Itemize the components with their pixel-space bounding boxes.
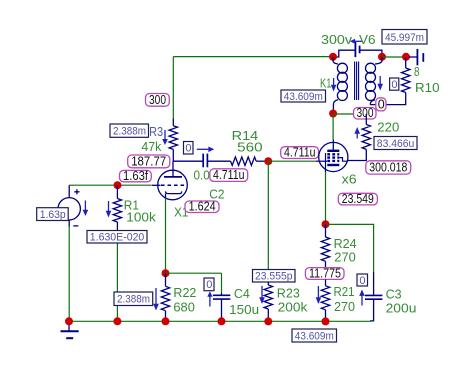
wire grid drop to R23 <box>267 161 269 269</box>
node junction primary bottom <box>329 110 337 118</box>
svg-text:0: 0 <box>378 97 385 111</box>
resistor R22 <box>161 273 169 321</box>
capacitor C3 <box>365 272 382 321</box>
wire X6 cathode drop <box>325 172 327 224</box>
current box 23.555p (R23) <box>253 270 296 283</box>
svg-text:1.624: 1.624 <box>189 200 216 214</box>
label K1 <box>320 76 332 91</box>
svg-text:0: 0 <box>359 275 365 287</box>
current arrow 220 up <box>354 127 360 139</box>
svg-text:270: 270 <box>334 249 356 264</box>
svg-text:11.775: 11.775 <box>309 266 341 280</box>
resistor 220 screen <box>348 114 371 161</box>
current arrow V6 <box>350 39 362 44</box>
value 0.047u (C2, partly covered) <box>194 167 210 182</box>
svg-text:0.0: 0.0 <box>194 167 210 182</box>
value 270 R21 <box>334 299 355 314</box>
node 4.711u label left <box>210 168 248 182</box>
node junction R10 top <box>402 53 410 61</box>
svg-text:680: 680 <box>173 300 195 315</box>
value 680 <box>173 300 195 315</box>
svg-text:43.609m: 43.609m <box>295 331 334 343</box>
node junction rail R22 <box>162 317 170 325</box>
svg-text:C3: C3 <box>386 287 402 302</box>
node junction battery left <box>329 53 337 61</box>
wire source bottom drop <box>68 227 70 322</box>
svg-text:R23: R23 <box>277 286 300 301</box>
svg-text:300: 300 <box>357 106 374 120</box>
current arrow K1 primary <box>331 78 337 92</box>
svg-text:220: 220 <box>377 119 399 134</box>
node junction rail ground <box>65 317 73 325</box>
svg-text:R22: R22 <box>173 285 196 300</box>
current arrow R23 <box>259 286 265 304</box>
capacitor C2 <box>203 154 230 168</box>
resistor R10 <box>370 57 410 105</box>
source V1 input <box>58 185 80 226</box>
node junction grid X6 <box>264 157 272 165</box>
current arrow K1 secondary <box>377 76 383 91</box>
resistor R1 <box>113 185 121 230</box>
svg-text:187.77: 187.77 <box>131 154 166 168</box>
current arrow R1 <box>106 201 112 218</box>
node 300 label mid <box>354 106 377 120</box>
node 11.775 label <box>305 266 344 280</box>
tube X6 pentode <box>316 140 348 173</box>
current box 83.466u <box>374 137 417 151</box>
current box 0 (R10) <box>390 78 399 91</box>
label R23 <box>277 286 300 301</box>
value 560 <box>237 139 262 154</box>
wire plate row X1 to C2 <box>173 160 203 162</box>
node 300.018 label <box>366 161 411 175</box>
wire grid row to X6 <box>268 160 316 162</box>
current box 2.388m (R3) <box>110 124 149 138</box>
value 300v <box>321 32 353 47</box>
svg-text:2.388m: 2.388m <box>117 294 150 306</box>
value 200k <box>278 300 308 315</box>
svg-text:R21: R21 <box>334 284 355 299</box>
current arrow C4 up <box>207 291 212 306</box>
current box 0 (C2) <box>184 142 194 155</box>
current box 0 (C4) <box>204 278 214 291</box>
node junction input <box>114 181 122 189</box>
wire row to C4 <box>166 272 222 274</box>
svg-text:200k: 200k <box>278 300 308 315</box>
node 300 label top <box>146 93 170 107</box>
svg-text:4.711u: 4.711u <box>284 145 316 159</box>
label R3 <box>149 124 163 139</box>
value 8 <box>414 64 420 79</box>
label R22 <box>173 285 196 300</box>
node junction rail R21 <box>322 317 330 325</box>
wire X6 plate drop <box>332 114 334 140</box>
svg-text:C4: C4 <box>234 286 250 301</box>
node junction X6 cathode <box>322 220 330 228</box>
resistor R23 <box>264 282 272 321</box>
label C2 <box>209 186 224 201</box>
svg-text:23.555p: 23.555p <box>255 271 293 283</box>
wire B+ drop to R3 <box>172 57 174 119</box>
wire top B+ rail <box>173 56 332 58</box>
value 150u <box>229 302 259 317</box>
node 1.63f label <box>120 169 152 183</box>
svg-text:150u: 150u <box>229 302 259 317</box>
node 1.624 label <box>185 200 219 214</box>
current box 0 (C3) <box>357 274 368 287</box>
wire R1 bottom <box>116 243 118 321</box>
svg-text:x6: x6 <box>342 172 357 187</box>
node 23.549 label <box>338 192 377 206</box>
svg-text:R10: R10 <box>415 80 440 95</box>
svg-text:47k: 47k <box>141 139 161 154</box>
svg-text:300.018: 300.018 <box>369 161 407 175</box>
tube X1 triode <box>152 161 188 200</box>
current box 43.609m (R21) <box>292 329 337 343</box>
value 100k <box>126 209 156 224</box>
svg-text:100k: 100k <box>126 209 156 224</box>
wire ground rail <box>69 320 371 322</box>
node junction rail C4 <box>218 317 226 325</box>
battery V6 <box>333 41 382 57</box>
label R21 <box>334 284 355 299</box>
svg-text:4.711u: 4.711u <box>213 168 245 182</box>
svg-text:K1: K1 <box>320 76 332 91</box>
svg-text:270: 270 <box>334 299 355 314</box>
resistor R21 <box>321 279 329 321</box>
value box 1.63p <box>37 208 68 221</box>
resistor R24 <box>321 224 329 267</box>
wire cathode row to C3 <box>326 224 374 272</box>
value box 1.630E-020 <box>87 231 147 244</box>
svg-text:2.388m: 2.388m <box>113 126 146 138</box>
node junction battery right <box>378 53 386 61</box>
svg-text:0: 0 <box>391 79 397 91</box>
ground <box>61 321 79 338</box>
svg-text:200u: 200u <box>386 300 417 315</box>
node junction X1 cathode <box>162 269 170 277</box>
current arrow R22 <box>153 288 159 311</box>
label C4 <box>234 286 250 301</box>
label C3 <box>386 287 402 302</box>
current box 45.997m <box>382 30 427 45</box>
svg-text:300: 300 <box>149 93 166 107</box>
resistor R3 <box>169 119 177 162</box>
svg-text:0: 0 <box>206 279 212 291</box>
wire input row <box>69 184 151 186</box>
svg-text:R3: R3 <box>149 124 163 139</box>
svg-text:300v: 300v <box>321 32 353 47</box>
node 0 label secondary <box>376 97 386 111</box>
value 200u <box>386 300 417 315</box>
capacitor C4 <box>213 273 230 321</box>
svg-text:0: 0 <box>185 143 191 155</box>
svg-text:83.466u: 83.466u <box>377 138 415 150</box>
svg-text:8: 8 <box>414 64 420 79</box>
value 47k <box>141 139 161 154</box>
current arrow C2 right <box>197 147 214 153</box>
current box 2.388m (R22) <box>114 292 153 306</box>
svg-text:23.549: 23.549 <box>342 192 374 206</box>
node junction rail R1 <box>113 317 121 325</box>
svg-text:V6: V6 <box>359 32 376 47</box>
label V6 <box>359 32 376 47</box>
svg-text:560: 560 <box>237 139 262 154</box>
current arrow C3 up <box>359 290 365 306</box>
current box 43.609m (K1) <box>281 90 326 103</box>
wire secondary top to R10 <box>382 56 410 58</box>
current arrow source <box>83 201 89 217</box>
node junction rail R23 <box>264 317 272 325</box>
node 187.77 label <box>128 154 170 168</box>
value 220 <box>377 119 399 134</box>
transformer K1 <box>333 57 382 114</box>
svg-text:43.609m: 43.609m <box>284 91 323 103</box>
node 4.711u label right <box>281 145 319 159</box>
wire X1 cathode drop <box>165 198 167 273</box>
svg-text:1.630E-020: 1.630E-020 <box>90 232 145 244</box>
current arrow R21 <box>316 286 322 304</box>
label x6 <box>342 172 357 187</box>
resistor R14 <box>231 157 265 165</box>
label R24 <box>334 236 357 251</box>
wire plate node row <box>333 113 366 115</box>
svg-text:45.997m: 45.997m <box>385 32 424 44</box>
label R10 <box>415 80 440 95</box>
label R14 <box>232 128 259 143</box>
svg-text:1.63p: 1.63p <box>40 209 66 221</box>
value 270 R24 <box>334 249 356 264</box>
svg-text:1.63f: 1.63f <box>123 169 148 183</box>
current arrow R3 <box>162 130 168 145</box>
label X1 <box>174 204 189 219</box>
ground right <box>409 49 423 65</box>
label R1 <box>124 197 139 212</box>
